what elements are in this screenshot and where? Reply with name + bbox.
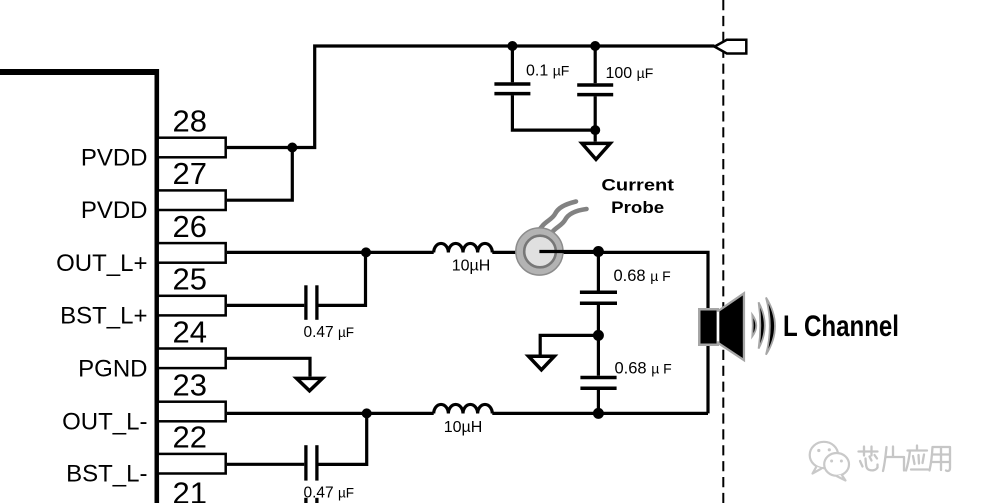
inductor L2 10uH: [434, 404, 493, 413]
pin 23 box: [158, 402, 226, 422]
pin 24 box: [158, 349, 226, 369]
speaker LS1: driver box: [701, 311, 717, 344]
speaker LS1: gap between driver and horn: [717, 312, 719, 342]
svg-text:OUT_L+: OUT_L+: [56, 250, 147, 277]
svg-text:28: 28: [173, 104, 207, 139]
svg-text:0.47 µF: 0.47 µF: [304, 324, 355, 341]
svg-text:10µH: 10µH: [444, 419, 483, 436]
wire: pin27 stub up to pin28 net: [227, 148, 292, 201]
wire: C5 to OUT_L+: [319, 252, 366, 305]
capacitor C2 100uF: [577, 46, 613, 142]
junction: C1/C2 ground link: [590, 125, 600, 135]
junction: PVDD pins: [287, 143, 297, 153]
IC U1 body left/top edge (partial): [0, 69, 159, 503]
svg-text:PVDD: PVDD: [81, 197, 148, 224]
capacitor C5 0.47uF: [306, 285, 317, 320]
svg-text:L Channel: L Channel: [783, 310, 899, 343]
capacitor C6 0.47uF: [306, 445, 317, 480]
wire: C6 to OUT_L-: [319, 413, 367, 464]
speaker LS1: horn: [720, 296, 743, 359]
dashed boundary line: [722, 0, 724, 503]
ground (mid node): [529, 356, 555, 370]
svg-text:10µH: 10µH: [452, 258, 491, 275]
inductor L1 10uH: [434, 243, 493, 252]
current probe: [516, 202, 596, 276]
capacitor C4 0.68uF: [580, 335, 616, 413]
svg-text:Current: Current: [601, 176, 674, 194]
svg-text:BST_L-: BST_L-: [66, 461, 147, 488]
junction: OUT_L- at C4: [593, 408, 604, 419]
junction: top rail at C1: [507, 41, 517, 51]
svg-text:0.47 µF: 0.47 µF: [304, 485, 355, 502]
wire: BST_L+ to C5: [227, 304, 304, 307]
capacitor C7 (cut off at bottom edge): [306, 498, 317, 503]
svg-text:PVDD: PVDD: [81, 145, 148, 172]
pin 26 box: [158, 243, 226, 263]
svg-text:22: 22: [173, 420, 207, 455]
wire: OUT_L+ net: [227, 251, 434, 254]
junction: mid node: [593, 330, 604, 341]
wire: pin28 to PVDD rail riser and top rail: [227, 46, 715, 148]
svg-text:0.1 µF: 0.1 µF: [526, 63, 569, 80]
watermark: text 芯片应用 (drawn strokes): [859, 446, 951, 472]
junction: top rail at C2: [590, 41, 600, 51]
pin 27 box: [158, 190, 226, 210]
svg-text:0.68 µ F: 0.68 µ F: [614, 267, 671, 285]
wire: PGND to ground: [227, 358, 310, 376]
pin 25 box: [158, 296, 226, 316]
pin 28 box: [158, 138, 226, 158]
svg-text:24: 24: [173, 314, 207, 349]
speaker LS1: sound waves: [752, 298, 775, 355]
ground (PGND): [297, 378, 323, 390]
svg-text:26: 26: [173, 209, 207, 244]
junction: OUT_L+ at C3: [593, 246, 604, 257]
wire: mid node to ground: [540, 335, 598, 354]
svg-text:OUT_L-: OUT_L-: [62, 409, 147, 436]
svg-text:25: 25: [173, 262, 207, 297]
label Current Probe: [601, 176, 674, 217]
capacitor C3 0.68uF: [580, 252, 617, 336]
capacitor C1 0.1uF: [494, 46, 595, 130]
svg-text:BST_L+: BST_L+: [60, 303, 147, 330]
svg-text:100 µF: 100 µF: [606, 65, 654, 82]
junction: OUT_L+ / BST cap: [361, 247, 371, 257]
junction: OUT_L- / BST cap: [362, 408, 372, 418]
svg-text:27: 27: [173, 156, 207, 191]
svg-text:PGND: PGND: [78, 355, 147, 382]
svg-text:0.68 µ F: 0.68 µ F: [615, 360, 672, 378]
svg-text:Probe: Probe: [611, 199, 664, 217]
connector: PVDD supply tag: [715, 40, 747, 54]
svg-text:23: 23: [173, 368, 207, 403]
svg-text:21: 21: [173, 476, 207, 503]
wire: BST_L- to C6: [227, 463, 304, 466]
pin 22 box: [158, 454, 226, 474]
watermark: WeChat icon: [810, 442, 849, 481]
wire: OUT_L- net: [227, 412, 434, 415]
ground (top decoupling): [582, 143, 610, 159]
